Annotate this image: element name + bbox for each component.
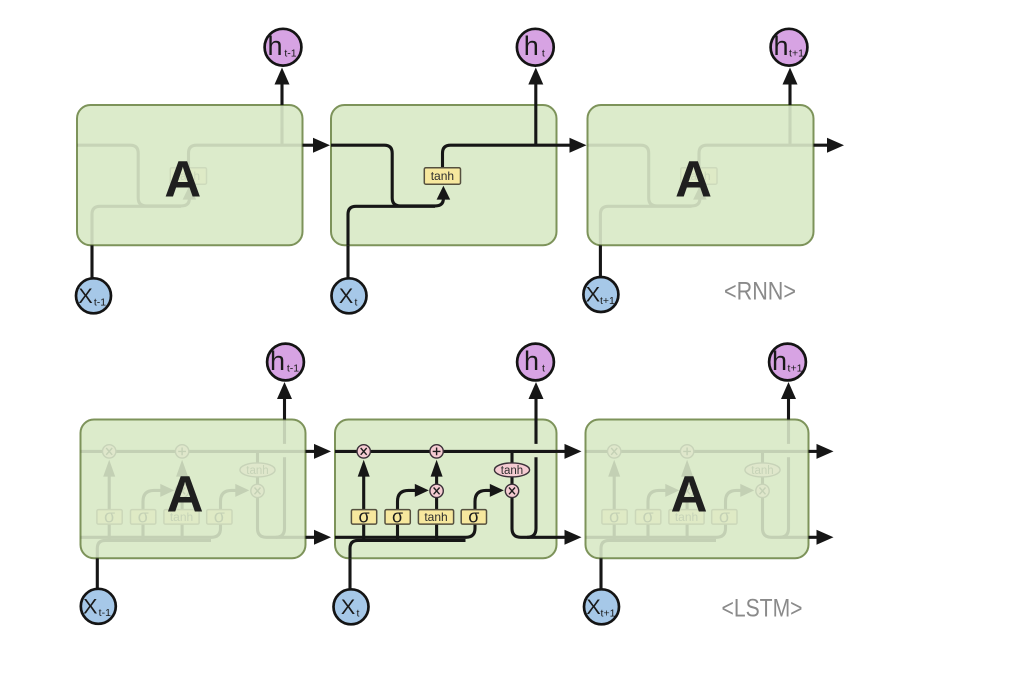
LSTM right cell faded internals: output branch up to h (hops cell line) xyxy=(780,420,789,538)
LSTM cell box A1 xyxy=(81,420,306,559)
LSTM right cell faded internals: new hidden line out xyxy=(763,498,809,538)
LSTM right cell faded internals: hidden state line into output gate xyxy=(586,524,726,537)
svg-text:σ: σ xyxy=(392,507,403,527)
node h_t (RNN) xyxy=(517,29,554,66)
node x_t (LSTM) xyxy=(334,589,369,624)
LSTM cell box A3 xyxy=(586,420,809,559)
LSTM left cell faded internals: input gate sigma xyxy=(131,510,156,524)
RNN cell box A1 xyxy=(77,105,303,245)
LSTM left cell faded internals: tanh branch from cell line xyxy=(256,451,259,484)
LSTM right cell faded internals: input gate lines xyxy=(648,490,666,541)
LSTM left cell faded internals: candidate tanh lines xyxy=(181,498,184,542)
LSTM right cell faded internals: cell state line xyxy=(586,450,809,453)
wire x input line RNN cell 2 xyxy=(346,245,349,278)
RNN left cell faded internal wiring: tanh output / h wire xyxy=(189,145,303,168)
RNN cell box A3 xyxy=(588,105,814,245)
svg-text:X: X xyxy=(341,595,355,619)
wire RNN h arrow 3 xyxy=(814,144,831,147)
RNN right cell faded internal wiring: x input merge wire xyxy=(600,206,691,245)
wire h output arrow LSTM cell 3 xyxy=(787,399,790,420)
LSTM middle cell internals: hidden state line into output gate xyxy=(335,524,475,537)
RNN right cell faded internal wiring: h branch wire xyxy=(788,105,791,145)
node x_t+1 (RNN) xyxy=(583,277,618,312)
RNN left cell faded internal wiring: recurrent input wire xyxy=(77,145,189,206)
LSTM middle cell internals: pointwise mult (forget) xyxy=(357,445,370,458)
svg-text:A: A xyxy=(167,466,204,523)
RNN right cell faded internal wiring xyxy=(588,105,814,245)
LSTM middle cell internals: forget gate sigma xyxy=(351,510,376,524)
wire LSTM cell-state arrow 1 xyxy=(306,450,321,453)
LSTM left cell faded internals: tanh ellipse xyxy=(240,463,275,477)
svg-text:h: h xyxy=(773,31,788,61)
svg-text:σ: σ xyxy=(719,507,730,527)
RNN right cell faded internal wiring: recurrent input wire xyxy=(588,145,700,206)
wire h output arrow RNN cell 2 xyxy=(534,85,537,106)
svg-text:tanh: tanh xyxy=(431,169,454,183)
wire LSTM hidden-state arrow 1 xyxy=(306,536,321,539)
node x_t-1 (LSTM) xyxy=(81,589,116,624)
LSTM left cell faded internals: output gate lines xyxy=(221,490,236,509)
LSTM middle cell internals: candidate gate tanh xyxy=(418,510,453,524)
LSTM middle cell internals: tanh ellipse xyxy=(494,463,529,477)
LSTM right cell faded internals: x input merge line xyxy=(601,540,716,558)
LSTM middle cell internals: input gate sigma xyxy=(385,510,410,524)
RNN middle cell internal wiring: h branch wire xyxy=(534,105,537,145)
svg-text:<LSTM>: <LSTM> xyxy=(722,595,803,623)
LSTM right cell faded internals: candidate tanh lines xyxy=(686,498,689,542)
svg-text:t+1: t+1 xyxy=(789,48,804,60)
LSTM right cell faded internals: pointwise mult (forget) xyxy=(608,445,621,458)
wire RNN h arrow 2 xyxy=(557,144,573,147)
LSTM left cell faded internals: forget gate lines xyxy=(108,477,111,542)
LSTM left cell faded internals: output branch up to h (hops cell line) xyxy=(276,420,285,538)
RNN middle cell internal wiring: tanh output / h wire xyxy=(443,145,557,168)
node h_t-1 (LSTM) xyxy=(267,344,304,381)
LSTM middle cell internals: pointwise add xyxy=(430,445,443,458)
svg-text:tanh: tanh xyxy=(246,465,268,477)
LSTM middle cell internals: input gate lines xyxy=(398,490,416,541)
wire h output arrow RNN cell 3 xyxy=(788,85,791,106)
svg-text:t: t xyxy=(357,607,360,619)
RNN middle cell internal wiring: x input merge wire xyxy=(348,206,435,245)
node x_t+1 (LSTM) xyxy=(584,589,619,624)
LSTM middle cell internals: forget gate lines xyxy=(362,477,365,542)
LSTM middle cell internals: pointwise mult (input) xyxy=(430,484,443,497)
svg-text:tanh: tanh xyxy=(751,465,773,477)
svg-text:h: h xyxy=(524,31,539,61)
LSTM left cell faded internals: new hidden line out xyxy=(258,498,306,538)
LSTM left cell faded internals: hidden state line into output gate xyxy=(81,524,221,537)
LSTM right cell faded internals: pointwise add xyxy=(680,445,693,458)
LSTM left cell faded internals: pointwise mult (input) xyxy=(175,484,188,497)
LSTM left cell faded internals: forget gate sigma xyxy=(97,510,122,524)
node h_t+1 (RNN) xyxy=(771,29,808,66)
RNN right cell faded internal wiring: tanh activation gate xyxy=(681,168,717,185)
svg-text:A: A xyxy=(164,151,201,208)
svg-text:X: X xyxy=(339,284,353,308)
LSTM left cell faded internals: candidate gate tanh xyxy=(164,510,199,524)
LSTM left cell faded internals xyxy=(81,420,306,559)
wire x input line RNN cell 3 xyxy=(599,245,602,278)
wire LSTM hidden-state arrow 2 xyxy=(557,536,571,539)
LSTM right cell faded internals: tanh branch from cell line xyxy=(761,451,764,484)
svg-text:t: t xyxy=(542,48,545,60)
LSTM right cell faded internals: candidate gate tanh xyxy=(669,510,704,524)
LSTM middle cell internals: tanh branch from cell line xyxy=(510,451,513,484)
LSTM left cell faded internals: cell state line xyxy=(81,450,306,453)
wire h output arrow RNN cell 1 xyxy=(280,85,283,106)
LSTM left cell faded internals: x input merge line xyxy=(97,540,211,558)
RNN left cell faded internal wiring: h branch wire xyxy=(280,105,283,145)
wire LSTM cell-state arrow 2 xyxy=(557,450,571,453)
LSTM left cell faded internals: pointwise mult (output) xyxy=(251,484,264,497)
svg-text:σ: σ xyxy=(609,507,620,527)
RNN middle cell internal wiring xyxy=(331,105,557,245)
LSTM right cell faded internals xyxy=(586,420,809,559)
LSTM right cell faded internals: forget gate lines xyxy=(613,477,616,542)
svg-text:σ: σ xyxy=(643,507,654,527)
node h_t+1 (LSTM) xyxy=(769,344,806,381)
svg-text:t-1: t-1 xyxy=(94,296,106,308)
node x_t-1 (RNN) xyxy=(76,278,111,313)
svg-text:t: t xyxy=(542,363,545,375)
svg-text:<RNN>: <RNN> xyxy=(724,278,796,306)
svg-text:X: X xyxy=(586,283,600,307)
wire x input line RNN cell 1 xyxy=(90,245,93,278)
wire LSTM cell-state arrow 3 xyxy=(809,450,823,453)
LSTM right cell faded internals: output gate sigma xyxy=(712,510,737,524)
svg-text:h: h xyxy=(270,346,285,376)
svg-text:t: t xyxy=(355,296,358,308)
RNN left cell faded internal wiring: x input merge wire xyxy=(92,206,181,245)
svg-text:σ: σ xyxy=(468,507,479,527)
wire h output arrow LSTM cell 1 xyxy=(283,399,286,420)
svg-text:σ: σ xyxy=(214,507,225,527)
LSTM middle cell internals: x input merge line xyxy=(350,540,466,558)
node x_t (RNN) xyxy=(332,278,367,313)
LSTM left cell faded internals: input gate lines xyxy=(143,490,161,541)
svg-text:X: X xyxy=(586,595,600,619)
LSTM middle cell internals: output gate lines xyxy=(475,490,490,509)
LSTM middle cell internals: candidate tanh lines xyxy=(435,498,438,542)
wire x input line LSTM cell 1 xyxy=(96,558,99,588)
RNN right cell faded internal wiring: tanh output / h wire xyxy=(699,145,814,168)
svg-text:X: X xyxy=(83,594,97,618)
svg-text:tanh: tanh xyxy=(424,510,447,524)
RNN left cell faded internal wiring xyxy=(77,105,303,245)
svg-text:h: h xyxy=(772,346,787,376)
LSTM right cell faded internals: pointwise mult (input) xyxy=(680,484,693,497)
svg-text:σ: σ xyxy=(358,507,369,527)
wire LSTM hidden-state arrow 3 xyxy=(809,536,823,539)
svg-text:t+1: t+1 xyxy=(788,363,803,375)
LSTM middle cell internals: output branch up to h (hops cell line) xyxy=(527,420,536,538)
node h_t (LSTM) xyxy=(517,344,554,381)
svg-text:h: h xyxy=(524,346,539,376)
wire x input line LSTM cell 3 xyxy=(599,558,602,588)
LSTM right cell faded internals: input gate sigma xyxy=(636,510,661,524)
RNN cell box A2 xyxy=(331,105,557,245)
svg-text:t-1: t-1 xyxy=(284,48,296,60)
svg-text:X: X xyxy=(78,284,92,308)
svg-text:σ: σ xyxy=(138,507,149,527)
svg-text:σ: σ xyxy=(104,507,115,527)
wire RNN h arrow 1 xyxy=(303,144,317,147)
LSTM middle cell internals: pointwise mult (output) xyxy=(505,484,518,497)
LSTM middle cell internals: cell state line xyxy=(335,450,557,453)
LSTM right cell faded internals: forget gate sigma xyxy=(602,510,627,524)
RNN middle cell internal wiring: recurrent input wire xyxy=(331,145,443,206)
LSTM right cell faded internals: tanh ellipse xyxy=(745,463,780,477)
RNN left cell faded internal wiring: tanh activation gate xyxy=(170,168,206,185)
LSTM right cell faded internals: pointwise mult (output) xyxy=(756,484,769,497)
svg-text:t-1: t-1 xyxy=(287,363,299,375)
LSTM cell box A2 xyxy=(335,420,557,559)
node h_t-1 (RNN) xyxy=(265,29,302,66)
LSTM left cell faded internals: output gate sigma xyxy=(207,510,232,524)
LSTM middle cell internals xyxy=(335,420,557,559)
wire h output arrow LSTM cell 2 xyxy=(534,399,537,420)
RNN middle cell internal wiring: tanh activation gate xyxy=(424,168,460,185)
svg-text:tanh: tanh xyxy=(501,465,523,477)
LSTM right cell faded internals: output gate lines xyxy=(726,490,741,509)
LSTM left cell faded internals: pointwise mult (forget) xyxy=(103,445,116,458)
svg-text:t+1: t+1 xyxy=(600,295,615,307)
LSTM left cell faded internals: pointwise add xyxy=(175,445,188,458)
LSTM middle cell internals: new hidden line out xyxy=(512,498,557,538)
svg-text:A: A xyxy=(671,466,708,523)
svg-text:t+1: t+1 xyxy=(601,607,616,619)
svg-text:t-1: t-1 xyxy=(99,607,111,619)
wire x input line LSTM cell 2 xyxy=(348,558,351,588)
svg-text:h: h xyxy=(267,31,282,61)
LSTM middle cell internals: output gate sigma xyxy=(461,510,486,524)
svg-text:A: A xyxy=(675,151,712,208)
